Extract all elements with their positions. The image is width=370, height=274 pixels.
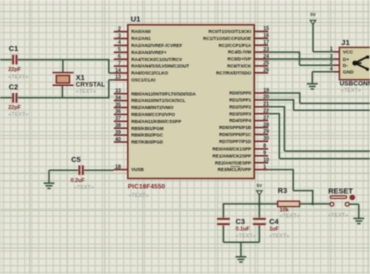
svg-text:0.1uF: 0.1uF: [236, 226, 251, 232]
IC U1 microcontroller PIC18F4550: [128, 25, 254, 179]
svg-text:RD3/SPP3: RD3/SPP3: [229, 111, 251, 116]
svg-text:RA4/T0CKI/C1OUT/RCV: RA4/T0CKI/C1OUT/RCV: [131, 57, 182, 62]
svg-text:RC5/D+/VP: RC5/D+/VP: [228, 57, 252, 62]
svg-text:RC4/D-/VM: RC4/D-/VM: [228, 50, 251, 55]
svg-text:VCC: VCC: [343, 50, 354, 56]
svg-text:0.2uF: 0.2uF: [71, 178, 86, 184]
svg-text:«TEXT»: «TEXT»: [269, 233, 289, 239]
svg-text:RA5/AN4/SS/LVDIN/C2OUT: RA5/AN4/SS/LVDIN/C2OUT: [131, 64, 189, 69]
svg-text:C3: C3: [236, 217, 245, 226]
svg-text:OSC1/CLKI: OSC1/CLKI: [131, 78, 155, 83]
svg-text:RE1/AN6/CK2SPP: RE1/AN6/CK2SPP: [213, 153, 252, 158]
wire OSC2 net jog: [109, 59, 114, 73]
svg-text:18: 18: [115, 164, 121, 170]
wire OSC1 net jog: [109, 80, 114, 99]
svg-text:1uF: 1uF: [269, 226, 279, 232]
svg-text:RB5/KBI1/PGM: RB5/KBI1/PGM: [131, 126, 164, 131]
svg-text:25: 25: [263, 61, 269, 67]
svg-text:«TEXT»: «TEXT»: [328, 213, 348, 219]
svg-text:5V: 5V: [310, 12, 317, 17]
ground: [353, 218, 364, 223]
wire C3 bottom: [222, 225, 224, 242]
wire D- jog: [300, 51, 334, 65]
svg-text:«TEXT»: «TEXT»: [280, 213, 300, 219]
svg-text:RC1/T1OSI/CCP2/UOE: RC1/T1OSI/CCP2/UOE: [203, 36, 251, 41]
svg-text:RESET: RESET: [328, 186, 353, 195]
wire R3 to button: [300, 203, 330, 205]
svg-text:RB6/KBI2/PGC: RB6/KBI2/PGC: [131, 133, 164, 138]
value label PIC18F4550: [128, 184, 166, 191]
svg-text:3: 3: [118, 33, 121, 39]
capacitor C1: [8, 44, 28, 81]
svg-text:RD0/SPP0: RD0/SPP0: [229, 91, 251, 96]
wire OSC2 net horizontal: [0, 59, 109, 61]
svg-text:J1: J1: [341, 38, 349, 47]
svg-text:22pF: 22pF: [8, 105, 21, 111]
wire VCC drop: [258, 195, 260, 219]
svg-text:RD1/SPP1: RD1/SPP1: [229, 98, 251, 103]
wire VUSB net: [49, 169, 114, 171]
svg-text:C5: C5: [71, 155, 80, 164]
svg-text:33: 33: [115, 89, 121, 95]
capacitor C2: [8, 83, 28, 118]
U1 pin stubs right: [254, 31, 268, 169]
svg-text:RB2/AN8/INT2/VMO: RB2/AN8/INT2/VMO: [131, 105, 174, 110]
svg-text:14: 14: [115, 68, 121, 74]
svg-text:C2: C2: [9, 83, 18, 92]
svg-text:RE2/AN7/OESPP: RE2/AN7/OESPP: [215, 160, 251, 165]
svg-text:USBCONN: USBCONN: [340, 81, 370, 88]
svg-text:«TEXT»: «TEXT»: [129, 193, 149, 199]
wire crystal bottom: [61, 85, 63, 98]
svg-text:CRYSTAL: CRYSTAL: [76, 81, 105, 88]
svg-text:30: 30: [263, 136, 269, 142]
wire C3 top: [222, 203, 224, 219]
svg-text:40: 40: [115, 137, 121, 143]
node MCLR junction: [312, 203, 314, 205]
label TEXT under J1: [341, 88, 361, 94]
svg-text:RA2/AN2/VREF-/CVREF: RA2/AN2/VREF-/CVREF: [131, 43, 182, 48]
svg-text:13: 13: [115, 75, 121, 81]
U1 pin names right: [203, 29, 252, 172]
svg-text:R3: R3: [278, 186, 287, 195]
svg-text:RD7/SPP7/P1D: RD7/SPP7/P1D: [219, 139, 252, 144]
svg-text:RA6/OSC2/CLKO: RA6/OSC2/CLKO: [131, 71, 168, 76]
svg-text:5V: 5V: [257, 183, 264, 188]
capacitor C4: [253, 217, 289, 240]
wire to ground left: [48, 170, 50, 183]
power VCC for reset: [257, 183, 264, 195]
svg-text:«TEXT»: «TEXT»: [76, 89, 96, 95]
svg-text:27: 27: [263, 115, 269, 121]
wire J1 GND: [312, 72, 333, 84]
value label USBCONN: [340, 81, 370, 88]
svg-text:RA3/AN3/VREF+: RA3/AN3/VREF+: [131, 50, 167, 55]
svg-text:4: 4: [118, 40, 121, 46]
svg-text:RB1/AN10/INT1/SCK/SCL: RB1/AN10/INT1/SCK/SCL: [131, 98, 186, 103]
power VCC top: [310, 12, 317, 25]
svg-text:1: 1: [263, 164, 266, 170]
crystal X1: [53, 73, 106, 95]
wire button to ground: [349, 204, 359, 218]
svg-text:«TEXT»: «TEXT»: [74, 185, 94, 191]
svg-text:34: 34: [115, 95, 121, 101]
svg-text:D+: D+: [343, 57, 350, 63]
svg-text:37: 37: [115, 116, 121, 122]
svg-text:VUSB: VUSB: [131, 167, 144, 172]
svg-text:RB3/AN9/CCP2/VPO: RB3/AN9/CCP2/VPO: [131, 112, 175, 117]
wire VCC to J1: [313, 24, 334, 51]
svg-text:RC2/CCP1/P1A: RC2/CCP1/P1A: [219, 43, 252, 48]
svg-text:10: 10: [263, 158, 269, 164]
svg-text:RD6/SPP6/P1C: RD6/SPP6/P1C: [219, 132, 252, 137]
svg-text:39: 39: [115, 130, 121, 136]
svg-text:RB0/AN12/INT0/FLT0/SDI/SDA: RB0/AN12/INT0/FLT0/SDI/SDA: [131, 91, 196, 96]
svg-text:1: 1: [330, 47, 333, 53]
svg-text:RC6/TX/CK: RC6/TX/CK: [227, 64, 252, 69]
wire bottom rail: [223, 241, 259, 243]
wire D+ from RC5: [268, 58, 333, 60]
capacitor C5: [71, 155, 94, 191]
svg-text:26: 26: [263, 68, 269, 74]
svg-text:5: 5: [118, 47, 121, 53]
svg-text:RE0/AN5/CK1SPP: RE0/AN5/CK1SPP: [213, 147, 252, 152]
ground: [236, 257, 247, 262]
wire RD0 net: [268, 92, 370, 103]
U1 pin numbers left: [115, 26, 121, 170]
svg-text:36: 36: [115, 109, 121, 115]
label TEXT under U1: [129, 193, 149, 199]
U1 pin names left: [131, 29, 196, 172]
svg-text:RA0/AN0: RA0/AN0: [131, 29, 151, 34]
svg-text:38: 38: [115, 123, 121, 129]
wire MCLR net: [268, 169, 313, 204]
svg-text:RE3/MCLR/VPP: RE3/MCLR/VPP: [218, 167, 252, 172]
ground: [44, 183, 55, 188]
svg-text:7: 7: [118, 61, 121, 67]
connector J1 USBCONN: [334, 47, 370, 79]
svg-text:28: 28: [263, 122, 269, 128]
svg-text:GND: GND: [343, 70, 354, 76]
svg-text:4: 4: [330, 67, 333, 73]
wire RD1 net: [268, 99, 370, 110]
U1 pin numbers right: [263, 26, 269, 170]
svg-text:2: 2: [330, 60, 333, 66]
resistor R3: [278, 186, 300, 219]
svg-text:16: 16: [263, 33, 269, 39]
svg-text:9: 9: [263, 151, 266, 157]
wire RD3 net: [268, 113, 370, 159]
wire C4 bottom: [258, 225, 260, 242]
svg-text:3: 3: [330, 54, 333, 60]
wire D- from RC4: [268, 51, 299, 53]
wire VCC rail to R3: [223, 203, 277, 205]
svg-text:RD4/SPP4: RD4/SPP4: [229, 118, 251, 123]
svg-text:RC0/T1OSO/T13CKI: RC0/T1OSO/T13CKI: [208, 29, 251, 34]
svg-text:22pF: 22pF: [8, 67, 21, 73]
wire crystal top: [62, 60, 64, 73]
svg-text:17: 17: [263, 40, 269, 46]
label J1: [341, 38, 349, 47]
label U1: [131, 15, 141, 24]
ground: [307, 84, 318, 89]
svg-text:C4: C4: [269, 217, 279, 226]
svg-text:RA1/AN1: RA1/AN1: [131, 36, 151, 41]
svg-text:RD2/SPP2: RD2/SPP2: [229, 104, 251, 109]
svg-text:«TEXT»: «TEXT»: [341, 88, 361, 94]
svg-text:15: 15: [263, 26, 269, 32]
svg-text:RC7/RX/DT/SDO: RC7/RX/DT/SDO: [216, 70, 252, 75]
svg-text:RB4/AN11/KBI0/CSSPP: RB4/AN11/KBI0/CSSPP: [131, 119, 181, 124]
wire RD2 net: [268, 106, 370, 151]
svg-text:PIC18F4550: PIC18F4550: [128, 184, 166, 191]
svg-text:«TEXT»: «TEXT»: [236, 233, 256, 239]
svg-text:«TEXT»: «TEXT»: [8, 74, 28, 80]
svg-text:2: 2: [118, 26, 121, 32]
svg-text:«TEXT»: «TEXT»: [8, 112, 28, 118]
U1 pin stubs left: [114, 32, 128, 170]
svg-text:35: 35: [115, 102, 121, 108]
svg-text:U1: U1: [131, 15, 141, 24]
svg-text:8: 8: [263, 144, 266, 150]
push button RESET: [328, 186, 355, 219]
svg-text:C1: C1: [9, 44, 18, 53]
wire rail to ground: [240, 242, 242, 256]
svg-text:6: 6: [118, 54, 121, 60]
svg-text:RB7/KBI3/PGD: RB7/KBI3/PGD: [131, 140, 164, 145]
node VCC rail junction: [258, 203, 260, 205]
svg-text:D-: D-: [343, 63, 349, 69]
wire OSC1 net horizontal: [0, 97, 109, 99]
svg-text:RD5/SPP5/P1B: RD5/SPP5/P1B: [219, 125, 252, 130]
J1 pin numbers: [330, 47, 333, 73]
svg-text:29: 29: [263, 129, 269, 135]
capacitor C3: [217, 217, 256, 240]
